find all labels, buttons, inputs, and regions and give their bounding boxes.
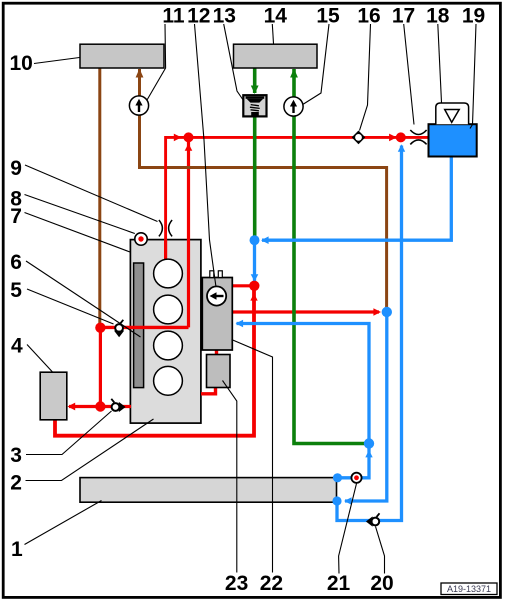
arrow blue left into radiator lower port — [344, 497, 352, 505]
svg-text:20: 20 — [370, 572, 393, 595]
wire green: heat exchanger 14 left port to valve 13 — [253, 68, 257, 93]
coolant pump housing item 22 — [202, 278, 232, 351]
svg-text:12: 12 — [187, 4, 210, 27]
junction blue dot green branch — [364, 438, 374, 448]
svg-text:17: 17 — [392, 4, 415, 27]
leader line 22 — [232, 340, 273, 573]
leader line 12 — [195, 24, 217, 287]
wire green: from thermostat valve 13 down to blue junction — [253, 116, 257, 238]
svg-text:15: 15 — [316, 4, 340, 27]
wire red: elbow from box 23 to engine — [201, 387, 216, 394]
wire red: box 4 bottom loop to pump suction riser — [55, 287, 254, 436]
leader line 18 — [438, 24, 442, 103]
wire red: pump suction stub to housing — [233, 284, 252, 287]
leader line 14 — [272, 24, 273, 44]
engine block (cylinder block) item 2 — [130, 240, 201, 424]
leader line 21 — [339, 484, 357, 574]
svg-text:5: 5 — [10, 279, 22, 302]
wire red internal: stub below hose symbol 9 — [164, 240, 167, 262]
leader line 1 — [25, 501, 102, 545]
arrow red left into box 4 — [68, 403, 76, 411]
leader line 6 — [26, 261, 141, 337]
junction red dot left upper — [95, 323, 105, 333]
pump symbol item 12 — [207, 286, 226, 305]
arrow red up on pump suction riser — [250, 293, 257, 300]
wire blue: from mix junction down and left into radiator lower port — [345, 312, 387, 501]
wire red: top bus from corner to expansion tank — [166, 137, 429, 239]
svg-text:10: 10 — [10, 52, 33, 75]
arrow red right on top bus before engine junction — [174, 134, 182, 142]
leader line 9 — [25, 165, 158, 222]
arrow blue up on radiator outlet riser — [365, 450, 372, 457]
leader line 7 — [25, 213, 131, 253]
svg-text:4: 4 — [11, 335, 23, 358]
auxiliary housing item 23 — [207, 355, 231, 388]
wire red internal: engine feed horizontal — [100, 326, 188, 329]
arrow brown up into heat exchanger 10 — [136, 69, 144, 78]
svg-text:9: 9 — [10, 157, 22, 180]
svg-text:6: 6 — [10, 251, 22, 274]
arrow green down into valve 13 — [251, 86, 259, 95]
svg-text:21: 21 — [327, 572, 351, 595]
cylinder bore 4 — [154, 366, 183, 395]
wire green: pump 15 line from heat exchanger 14 down and right to blue junction — [294, 69, 366, 444]
oil cooler bar item 6 — [134, 263, 144, 388]
wire blue: vent line from radiator lower port to top bus junction — [337, 146, 402, 521]
pin 2 on housing — [218, 271, 222, 278]
heater valve unit item 4 — [40, 372, 67, 420]
leader line 13 — [224, 24, 243, 100]
drain valve item 20 — [366, 513, 380, 526]
svg-text:16: 16 — [357, 4, 380, 27]
junction red dot left lower — [95, 401, 105, 411]
junction red dot top bus left — [184, 132, 194, 142]
cylinder bore 3 — [154, 331, 183, 360]
cylinder bore 1 — [154, 259, 183, 288]
arrow blue down into pump junction — [251, 274, 259, 281]
pump symbol item 15 — [284, 97, 303, 116]
svg-text:3: 3 — [10, 444, 22, 467]
leader line 15 — [304, 24, 330, 104]
pump symbol item 11 — [129, 96, 148, 115]
drain valve item 5 — [114, 320, 124, 338]
pin 1 on housing — [210, 271, 214, 278]
drawing number box A19-13371 — [441, 583, 497, 595]
leader line 16 — [360, 24, 371, 131]
expansion tank item 19 — [429, 124, 477, 156]
svg-text:23: 23 — [225, 572, 248, 595]
drain valve item 3 — [111, 399, 125, 412]
leader line 5 — [27, 289, 114, 324]
svg-text:11: 11 — [162, 4, 185, 27]
wire blue: radiator outlet line up and into pump housing — [237, 324, 370, 478]
temperature sender item 21 — [351, 473, 361, 483]
arrow blue left into junction — [261, 236, 269, 244]
leader line 2 — [26, 419, 154, 481]
leader line 17 — [404, 24, 414, 125]
junction blue dot mix point — [382, 307, 392, 317]
hose coupling item 17 — [410, 130, 426, 144]
junction red dot pump suction — [249, 281, 259, 291]
junction blue dot tank line — [250, 235, 260, 245]
check valve item 16 — [352, 131, 366, 145]
svg-text:19: 19 — [462, 4, 485, 27]
junction red dot top bus right — [396, 132, 406, 142]
radiator item 1 — [80, 478, 337, 503]
arrow blue up into top bus junction — [398, 144, 405, 151]
leader line 3 — [26, 411, 112, 455]
wire brown: heat exchanger 10 right port down, right, down to blue junction — [140, 69, 387, 308]
leader line 10 — [34, 58, 80, 64]
hose coupling item 9 — [159, 220, 172, 236]
arrow red right on top bus before tank junction — [389, 134, 397, 142]
wire red: stub between housing 22 and box 23 — [215, 349, 218, 355]
wire red internal: engine riser to top bus — [187, 137, 190, 327]
svg-text:1: 1 — [11, 538, 23, 561]
wire red: engine outlet line housing to blue junction — [233, 310, 379, 313]
junction blue dot radiator top port — [333, 473, 342, 482]
leader line 19 — [470, 24, 476, 129]
leader line 23 — [223, 381, 237, 573]
leader line 20 — [376, 527, 385, 574]
wire blue: expansion tank outlet down and left to junction — [262, 156, 451, 240]
svg-text:7: 7 — [10, 205, 22, 228]
svg-text:A19-13371: A19-13371 — [447, 584, 491, 594]
thermostat valve item 13 — [243, 95, 266, 116]
leader line 4 — [27, 345, 53, 373]
leader line 11 — [147, 24, 166, 100]
svg-text:22: 22 — [260, 572, 283, 595]
svg-text:14: 14 — [264, 4, 288, 27]
arrow red right into blue junction — [373, 308, 381, 316]
svg-text:18: 18 — [426, 4, 450, 27]
svg-text:13: 13 — [213, 4, 236, 27]
wire red: line into heater valve box 4 through drain valve 3 — [69, 405, 131, 408]
arrow red up below top-bus engine junction — [185, 143, 193, 150]
svg-text:2: 2 — [10, 472, 22, 495]
tank cap item 18 — [436, 103, 469, 124]
junction blue dot radiator lower port — [332, 496, 341, 505]
wire red: left vertical junction to junction — [99, 327, 102, 406]
wire brown: heat exchanger 10 left port down to junction — [98, 68, 101, 324]
heat exchanger item 14 — [234, 44, 318, 68]
arrow blue left into pump housing — [236, 320, 244, 328]
arrow green up into heat exchanger 14 — [290, 69, 298, 78]
heat exchanger item 10 — [80, 44, 164, 68]
cylinder bore 2 — [154, 295, 183, 324]
temperature sender item 8 — [135, 233, 147, 245]
leader line 8 — [25, 195, 135, 234]
wire blue: junction down to pump junction — [253, 240, 256, 283]
